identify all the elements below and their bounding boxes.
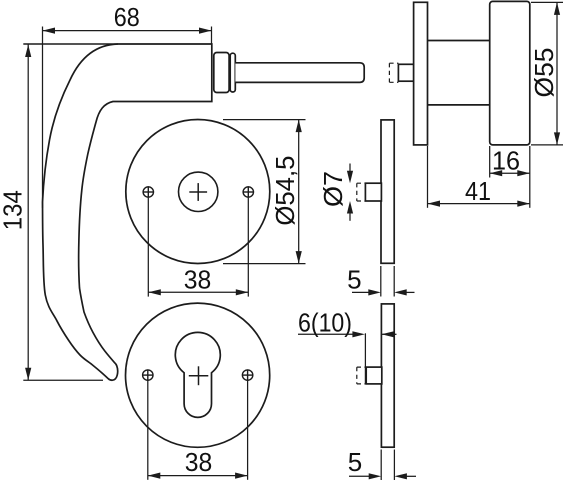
svg-text:Ø54,5: Ø54,5: [270, 156, 300, 226]
handle hub body: [490, 1, 530, 145]
upper fixing pin: [365, 183, 381, 201]
svg-text:16: 16: [492, 146, 520, 176]
upper rose left screw: [143, 186, 154, 197]
dimension D55: [531, 2, 563, 145]
dimension 5 lower: [349, 450, 416, 480]
dimension 68: [43, 27, 212, 208]
dimension 6(10): [298, 333, 397, 384]
svg-text:38: 38: [184, 265, 212, 295]
dimension 134: [23, 44, 118, 380]
svg-text:5: 5: [348, 447, 362, 477]
dimension D54,5: [223, 120, 306, 264]
svg-text:Ø55: Ø55: [529, 48, 559, 98]
dimension 38 lower: [148, 381, 248, 480]
lower rose side plate: [381, 304, 394, 447]
dimension 38 upper: [148, 198, 248, 297]
svg-text:Ø7: Ø7: [318, 171, 348, 207]
hidden spindle dashes at rose hub: [389, 63, 398, 82]
lower rose circle: [126, 303, 270, 447]
euro profile cylinder cutout: [175, 332, 220, 417]
spindle bar: [235, 63, 364, 83]
hub neck bottom line: [428, 104, 490, 106]
dimension 41: [428, 146, 530, 208]
upper rose side plate: [381, 120, 394, 263]
upper rose center cross: [189, 183, 207, 201]
svg-text:5: 5: [347, 264, 361, 294]
upper rose hub circle: [179, 172, 218, 211]
svg-text:6(10): 6(10): [298, 307, 352, 337]
dimension 5 upper: [352, 266, 415, 297]
spindle square socket: [398, 64, 413, 81]
upper rose circle: [126, 120, 270, 264]
svg-text:68: 68: [114, 2, 140, 32]
dimension D7: [349, 164, 351, 221]
handle lever outline: [43, 44, 212, 380]
handle neck collar ring 1: [214, 53, 229, 93]
dimension 16: [490, 146, 530, 208]
svg-text:38: 38: [185, 447, 213, 477]
upper fixing pin hidden dashes: [357, 183, 366, 201]
lower fixing pin hidden dashes: [357, 367, 366, 384]
hub neck top line: [428, 40, 490, 42]
svg-text:41: 41: [465, 176, 491, 206]
lower rose center cross: [189, 366, 209, 385]
svg-text:134: 134: [0, 190, 28, 230]
upper rose right screw: [243, 186, 254, 197]
lower rose left screw: [142, 369, 153, 380]
handle neck collar ring 2: [230, 53, 235, 92]
lower fixing pin: [366, 367, 382, 384]
lower rose right screw: [242, 369, 253, 380]
side view rose plate (top right): [414, 2, 428, 145]
